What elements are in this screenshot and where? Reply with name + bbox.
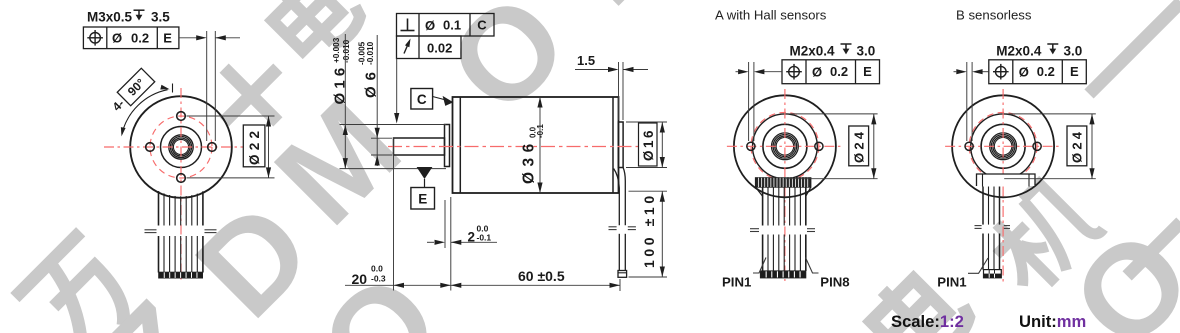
feature control frame position M3 [83,27,178,49]
svg-text:0.2: 0.2 [1037,64,1055,79]
svg-text:1.5: 1.5 [577,53,595,68]
watermark CJK X stroke glyph [197,41,304,148]
watermark CJK dian partial bottom-right [861,258,976,333]
hall Phi24 circle [753,114,818,179]
svg-text:100 ±10: 100 ±10 [641,192,657,268]
dim 1.5 extension lines [618,62,620,120]
hall side holes [747,142,755,150]
sensorless red crosshair [945,145,1061,147]
angular dim tick [172,84,174,93]
hall cable flare [756,187,763,196]
fcf perpendicular frame [397,14,495,37]
sensorless top block [977,174,1036,186]
left view: mounting boss circle [161,127,202,168]
dim Phi16 front extension lines [340,124,447,126]
svg-text:E: E [418,192,427,207]
svg-text:M2x0.4: M2x0.4 [790,44,836,59]
dim Phi6 extension lines [371,137,392,139]
svg-text:-0.3: -0.3 [371,274,386,284]
left view red centerline through cable [180,205,182,281]
watermark stroke right-lower [1127,222,1180,276]
svg-text:Ø: Ø [112,31,122,46]
angular dim 4-90 label [108,68,155,115]
hall outer circle [734,95,836,197]
svg-text:Ø16: Ø16 [641,128,656,161]
dim 100 dimension line [661,191,663,277]
svg-text:Ø: Ø [812,64,822,79]
watermark stroke top-right [1089,2,1180,94]
body rear inner line [612,97,614,193]
body front inner line [459,97,461,193]
svg-text:-0.1: -0.1 [536,124,545,138]
hall M2 hole extension lines [748,62,750,141]
svg-text:0.2: 0.2 [131,30,149,45]
svg-text:Ø22: Ø22 [247,127,262,165]
M3 leader line and arrows [179,37,197,39]
dim Phi22 dimension line [268,116,270,178]
sensorless M2 feature control frame [989,60,1087,84]
svg-text:C: C [477,18,487,33]
svg-text:E: E [163,30,172,45]
dim 20 dimension line [345,284,451,286]
left view cable end connector [159,272,203,278]
dim Phi16 rear extension lines [626,121,667,123]
sensorless M2 hole extension lines [966,62,968,141]
watermark CJK dian partial top [263,0,366,66]
sensorless inner circle [981,124,1025,168]
dim Phi22 extension line top [187,115,275,117]
dim Phi16 front dimension line [344,34,346,169]
M3 hole edge extension lines [206,31,208,141]
sensorless M2 leader [976,71,989,73]
svg-text:E: E [863,64,872,79]
hall M2 feature control frame [782,60,880,84]
datum E filled triangle [417,167,433,179]
svg-text:Ø36: Ø36 [521,138,538,184]
svg-text:Ø24: Ø24 [851,129,866,163]
left view red centerline horizontal [104,146,249,148]
left view mounting holes [177,112,186,121]
sensorless ribbon wires [982,187,984,225]
svg-text:M2x0.4: M2x0.4 [996,44,1042,59]
rear cable lower part [618,234,620,271]
dim Phi6 dimension line [376,35,378,166]
rear cable end connector [618,271,627,278]
dim Phi16 rear dimension line [661,122,663,168]
motor body outline [453,97,619,193]
angular dim arc [122,90,168,134]
dim Phi22 label box [243,125,265,167]
svg-text:3.0: 3.0 [857,44,876,59]
shaft [394,138,445,155]
hall cable end connector [761,271,806,278]
hall M2 leader [758,71,783,73]
hall dim Phi24 [786,113,878,115]
rear cable curve right [623,168,625,226]
middle red centerline [388,146,640,148]
svg-text:3.0: 3.0 [1064,44,1083,59]
sensorless red bolt circle [969,112,1037,180]
hall ribbon wires [762,187,764,225]
hall cable break marks [750,228,759,230]
left view: shaft hub rings [169,135,193,159]
svg-text:B sensorless: B sensorless [956,8,1032,23]
dim Phi36 label [521,124,546,184]
svg-text:-0.010: -0.010 [366,41,375,65]
svg-text:PIN1: PIN1 [722,275,751,290]
sensorless cable break marks [975,225,982,227]
sensorless dim Phi24 [1004,113,1096,115]
svg-text:60 ±0.5: 60 ±0.5 [518,268,565,284]
rear cable break marks [609,226,617,228]
hall inner circle [763,124,807,168]
svg-text:Ø: Ø [1019,64,1029,79]
svg-text:Scale:1:2: Scale:1:2 [891,312,964,331]
svg-text:Ø16: Ø16 [332,64,349,105]
hall top connector block [756,178,811,187]
dim 60 dimension line [451,284,620,286]
fcf runout frame [397,36,462,59]
datum E box [411,188,435,210]
svg-text:PIN8: PIN8 [820,275,849,290]
svg-text:Ø24: Ø24 [1070,129,1085,163]
sensorless side holes [965,142,973,150]
hall red crosshair [727,145,843,147]
dim Phi22 extension line bottom [187,177,275,179]
watermark CJK wan [14,232,148,333]
svg-text:-0.1: -0.1 [477,233,492,243]
svg-text:20: 20 [352,271,368,287]
dim Phi16 rear boxed label [639,123,658,166]
datum C box [411,89,433,110]
svg-text:Unit:mm: Unit:mm [1019,312,1086,331]
front boss [445,125,450,167]
sensorless cable end connector [984,270,1002,278]
svg-text:+0.003: +0.003 [332,37,341,63]
svg-text:Ø: Ø [425,18,435,33]
hall hub rings [772,133,799,160]
svg-text:0.2: 0.2 [830,64,848,79]
sensorless outer circle [952,95,1054,197]
svg-text:0.1: 0.1 [443,18,461,33]
sensorless hub rings [990,133,1017,160]
dim 100 extension lines [629,190,668,192]
fcf leader to boss [396,59,398,115]
watermark CJK ji bottom-right [979,173,1107,301]
dim Phi6 label [358,41,380,98]
svg-text:0.0: 0.0 [371,264,383,274]
hall red bolt circle [751,112,819,180]
left view red centerline vertical [180,88,182,205]
svg-text:C: C [417,92,427,107]
left view: front face circle [130,96,232,198]
left view cable break marks [145,229,157,231]
extension lines bottom dims [393,138,395,291]
svg-text:PIN1: PIN1 [937,275,966,290]
dim 100+-10 label [641,192,657,268]
sensorless Phi24 circle [971,114,1036,179]
svg-text:M3x0.5: M3x0.5 [87,10,133,25]
datum C leader arrow [433,97,444,100]
dim Phi16 front label [332,37,351,104]
svg-text:A with Hall sensors: A with Hall sensors [715,8,827,23]
dim 2 extension lines [444,200,446,248]
rear cable curve left [614,169,620,226]
dim Phi36 dimension line [539,97,541,193]
svg-text:0.02: 0.02 [427,40,452,55]
svg-text:-0.010: -0.010 [342,39,351,63]
left view ribbon cable wires [158,191,160,225]
svg-text:E: E [1070,64,1079,79]
left view red bolt circle [150,116,212,178]
svg-text:3.5: 3.5 [151,10,170,25]
rear boss [618,122,623,168]
